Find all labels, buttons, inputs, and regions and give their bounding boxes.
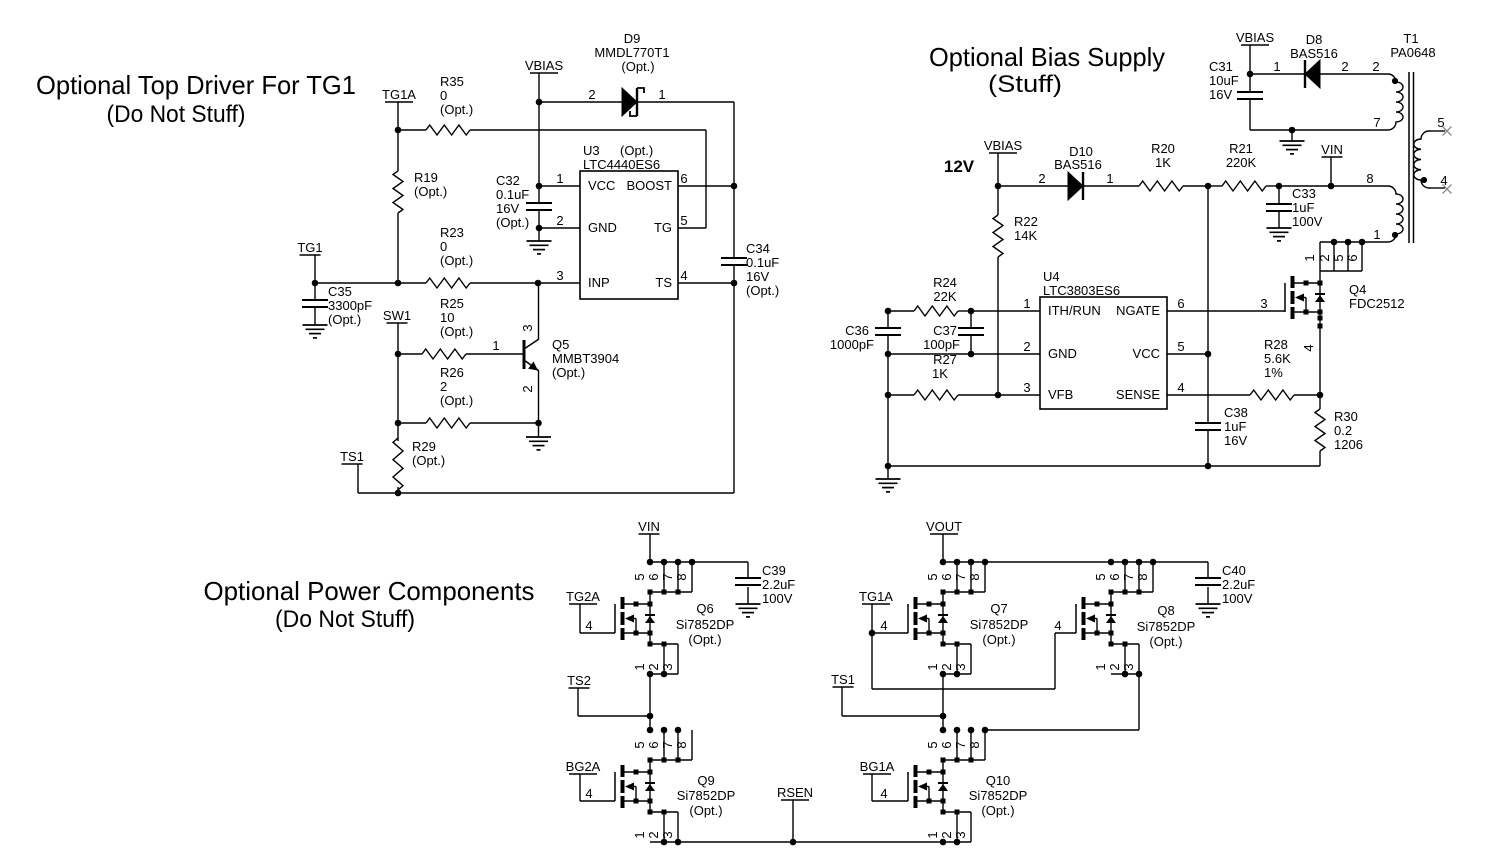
svg-text:0: 0 — [440, 239, 447, 254]
svg-text:5: 5 — [632, 741, 647, 748]
svg-text:(Opt.): (Opt.) — [1149, 634, 1182, 649]
svg-text:(Opt.): (Opt.) — [414, 184, 447, 199]
wire TG pin stub — [678, 227, 706, 229]
wire C31 bottom — [1249, 99, 1251, 130]
svg-text:3: 3 — [1121, 663, 1136, 670]
wire BOOST to C34 — [733, 186, 735, 258]
wire D9 to right corner — [637, 101, 734, 103]
wire INP pin stub — [538, 282, 580, 284]
wire R23 right — [470, 282, 538, 284]
svg-text:2: 2 — [588, 87, 595, 102]
svg-text:(Opt.): (Opt.) — [620, 143, 653, 158]
svg-text:C40: C40 — [1222, 563, 1246, 578]
svg-text:8: 8 — [1366, 171, 1373, 186]
svg-text:(Opt.): (Opt.) — [496, 215, 529, 230]
svg-text:2: 2 — [939, 663, 954, 670]
resistor R19 — [393, 170, 447, 213]
node VOUT bus junctions — [940, 559, 989, 566]
node VIN junction — [1328, 183, 1335, 190]
svg-text:R29: R29 — [412, 439, 436, 454]
svg-text:8: 8 — [967, 573, 982, 580]
svg-text:6: 6 — [1107, 573, 1122, 580]
transistor Q4 FDC2512 — [1285, 276, 1405, 319]
svg-text:(Opt.): (Opt.) — [412, 453, 445, 468]
node BOOST junction — [731, 183, 738, 190]
wire R30 bottom — [1319, 451, 1321, 466]
svg-text:6: 6 — [1177, 296, 1184, 311]
wire VBIAS stub — [538, 73, 540, 102]
wire R30 top — [1319, 395, 1321, 409]
svg-text:1: 1 — [1373, 227, 1380, 242]
svg-text:(Opt.): (Opt.) — [746, 283, 779, 298]
port BG1A — [860, 759, 895, 774]
svg-text:TG1: TG1 — [297, 240, 322, 255]
wire R29 to bottom row — [397, 487, 399, 493]
port VBIAS top — [1236, 30, 1275, 45]
transistor Q8 Si7852DP — [1076, 597, 1195, 649]
wire Q9 drain — [649, 760, 651, 772]
wire C33 top — [1278, 186, 1280, 204]
svg-text:16V: 16V — [496, 201, 519, 216]
node TG1A junction — [395, 127, 402, 134]
svg-text:1000pF: 1000pF — [830, 337, 874, 352]
svg-text:16V: 16V — [1209, 87, 1232, 102]
wire Q5 emitter — [538, 371, 540, 423]
port TG1 — [297, 240, 322, 255]
svg-text:3: 3 — [520, 324, 535, 331]
wire TG2A stub — [580, 604, 615, 633]
svg-text:TG2A: TG2A — [566, 589, 600, 604]
resistor R21 — [1222, 141, 1266, 191]
svg-text:SENSE: SENSE — [1116, 387, 1160, 402]
capacitor C34 — [721, 241, 779, 298]
svg-text:(Opt.): (Opt.) — [689, 803, 722, 818]
svg-text:VIN: VIN — [1321, 142, 1343, 157]
T1 polarity dot pin1 — [1392, 232, 1398, 238]
svg-text:R20: R20 — [1151, 141, 1175, 156]
node C36 bottom junction — [885, 351, 892, 358]
svg-text:(Opt.): (Opt.) — [621, 59, 654, 74]
svg-text:TS1: TS1 — [831, 672, 855, 687]
svg-text:7: 7 — [660, 741, 675, 748]
svg-text:Optional Bias Supply: Optional Bias Supply — [929, 42, 1165, 72]
wire TS1 stub — [357, 464, 359, 493]
Q7 drain pin group 5678 — [925, 562, 985, 595]
wire TG vertical — [705, 130, 707, 228]
svg-text:2: 2 — [1317, 254, 1332, 261]
wire VCC pin stub — [539, 185, 580, 187]
svg-text:(Do Not Stuff): (Do Not Stuff) — [275, 606, 415, 633]
wire C37 bottom — [970, 335, 972, 354]
diode D10 BAS516 — [1038, 144, 1113, 200]
wire C36 top — [887, 311, 889, 328]
diode D8 BAS516 — [1273, 32, 1348, 88]
wire VOUT stub — [942, 534, 944, 562]
node VBIAS-C31 junction — [1247, 71, 1254, 78]
resistor R30 — [1315, 409, 1363, 452]
port VBIAS — [525, 58, 564, 73]
Q9 source pin group 123 — [632, 810, 678, 843]
svg-text:2: 2 — [1341, 59, 1348, 74]
svg-text:ITH/RUN: ITH/RUN — [1048, 303, 1101, 318]
wire VBIAS to D8 — [1250, 73, 1305, 75]
wire C38 bottom — [1207, 430, 1209, 466]
wire Q9 source — [649, 801, 651, 812]
transistor Q7 Si7852DP — [908, 597, 1028, 647]
node Q8 source junctions — [1122, 671, 1143, 678]
node R19-INP junction — [395, 280, 402, 287]
wire SW1 stub — [397, 323, 399, 354]
svg-text:C31: C31 — [1209, 59, 1233, 74]
capacitor C40 — [1195, 563, 1255, 606]
svg-text:5: 5 — [925, 573, 940, 580]
svg-text:7: 7 — [1121, 573, 1136, 580]
port TG1A bottom — [859, 589, 893, 604]
port TG1A — [382, 87, 416, 102]
svg-text:BAS516: BAS516 — [1290, 46, 1338, 61]
node R29 bottom junction — [395, 490, 402, 497]
svg-text:1: 1 — [632, 831, 647, 838]
svg-text:NGATE: NGATE — [1116, 303, 1160, 318]
wire D10 to R20 — [1083, 185, 1139, 187]
svg-text:1: 1 — [556, 171, 563, 186]
svg-text:D8: D8 — [1306, 32, 1323, 47]
resistor R24 — [914, 275, 958, 316]
ground under C35 — [303, 307, 328, 338]
svg-text:7: 7 — [660, 573, 675, 580]
port TG2A — [566, 589, 600, 604]
ground under C33 — [1267, 211, 1292, 241]
svg-text:100V: 100V — [1222, 591, 1253, 606]
svg-text:1K: 1K — [932, 366, 948, 381]
svg-text:5: 5 — [1177, 339, 1184, 354]
ground under U4 section — [876, 466, 901, 492]
T1 pin4 lead — [1431, 173, 1452, 194]
transformer T1 labels — [1390, 31, 1435, 60]
wire 12V to D10 — [998, 185, 1068, 187]
svg-text:1uF: 1uF — [1292, 200, 1314, 215]
wire GND pin stub — [539, 227, 580, 229]
svg-text:6: 6 — [939, 741, 954, 748]
node Q10 bus junctions — [940, 727, 989, 734]
svg-text:Q5: Q5 — [552, 337, 569, 352]
wire Q8 source to Q10 bus — [1138, 674, 1140, 730]
svg-text:3: 3 — [660, 663, 675, 670]
resistor R23 — [426, 225, 473, 288]
svg-text:U4: U4 — [1043, 269, 1060, 284]
Q8 source pin group 123 — [1093, 642, 1139, 675]
wire VBIAS stub — [997, 153, 999, 186]
svg-text:VFB: VFB — [1048, 387, 1073, 402]
svg-text:1: 1 — [1023, 296, 1030, 311]
svg-text:1uF: 1uF — [1224, 419, 1246, 434]
op-amp U3 LTC4440ES6 box — [580, 143, 678, 299]
resistor R22 — [993, 214, 1038, 257]
wire R27 left — [888, 394, 914, 396]
svg-text:7: 7 — [1373, 115, 1380, 130]
node SW1-R25 junction — [395, 351, 402, 358]
wire mid vertical — [1207, 186, 1209, 354]
wire R27 right — [958, 394, 1040, 396]
wire D8 to T1 pin2 — [1320, 59, 1388, 74]
svg-text:(Opt.): (Opt.) — [981, 803, 1014, 818]
wire Q10 drain — [942, 760, 944, 772]
svg-text:2.2uF: 2.2uF — [1222, 577, 1255, 592]
wire TG1 to R19 node — [315, 282, 398, 284]
svg-text:2: 2 — [520, 385, 535, 392]
resistor R20 — [1139, 141, 1183, 191]
node C37 bottom junction — [968, 351, 975, 358]
wire BOOST pin stub — [678, 185, 734, 187]
node TS1 junction — [940, 713, 947, 720]
svg-text:2: 2 — [1107, 663, 1122, 670]
svg-text:BG2A: BG2A — [566, 759, 601, 774]
svg-text:2.2uF: 2.2uF — [762, 577, 795, 592]
svg-text:8: 8 — [967, 741, 982, 748]
wire NGATE to Q4 gate — [1167, 296, 1285, 311]
svg-text:12V: 12V — [944, 157, 975, 176]
svg-text:2: 2 — [646, 663, 661, 670]
wire TG1A stub — [397, 102, 399, 130]
svg-text:MMDL770T1: MMDL770T1 — [594, 45, 669, 60]
wire C37 top — [970, 311, 972, 328]
svg-text:C34: C34 — [746, 241, 770, 256]
svg-text:C33: C33 — [1292, 186, 1316, 201]
svg-text:VCC: VCC — [588, 178, 615, 193]
title: Optional Bias Supply — [929, 42, 1165, 98]
svg-text:VBIAS: VBIAS — [525, 58, 564, 73]
wire R35 right to TG corner — [470, 129, 706, 131]
svg-text:Optional Power Components: Optional Power Components — [204, 576, 535, 606]
wire TG1A to Q8 gate — [872, 618, 1076, 689]
port VIN — [1321, 142, 1343, 157]
wire R25 to base — [466, 338, 524, 354]
svg-text:R25: R25 — [440, 296, 464, 311]
svg-text:(Opt.): (Opt.) — [982, 632, 1015, 647]
svg-text:R28: R28 — [1264, 337, 1288, 352]
svg-text:14K: 14K — [1014, 228, 1037, 243]
resistor R27 — [914, 352, 958, 400]
svg-text:10: 10 — [440, 310, 454, 325]
wire Q6 drain — [649, 592, 651, 604]
Q6 drain pin group 5678 — [632, 562, 692, 595]
node R26 junction — [395, 420, 402, 427]
svg-text:5: 5 — [1331, 254, 1346, 261]
svg-text:8: 8 — [1135, 573, 1150, 580]
wire R20 to node — [1183, 185, 1208, 187]
U3 pin numbers — [556, 171, 687, 283]
T1 polarity dot pin4 — [1421, 177, 1427, 183]
wire VIN bus — [650, 561, 748, 563]
node VIN bus junctions — [647, 559, 696, 566]
wire C39 top — [747, 562, 749, 578]
ground under C31 row — [1280, 130, 1305, 154]
svg-text:1: 1 — [492, 338, 499, 353]
port VBIAS mid — [984, 138, 1023, 153]
wire VIN stub — [649, 534, 651, 562]
port BG2A — [566, 759, 601, 774]
Q9 drain pin group 5678 — [632, 730, 692, 763]
node R22-VFB junction — [995, 392, 1002, 399]
svg-text:Q10: Q10 — [986, 773, 1011, 788]
svg-text:(Opt.): (Opt.) — [440, 253, 473, 268]
capacitor C35 — [302, 284, 372, 327]
wire R35 left — [398, 129, 426, 131]
wire TS2 stub — [578, 688, 650, 716]
svg-text:TS: TS — [655, 275, 672, 290]
svg-text:(Opt.): (Opt.) — [688, 632, 721, 647]
wire C32 to GND node — [538, 210, 540, 228]
svg-text:5: 5 — [925, 741, 940, 748]
node gnd row left junction — [885, 463, 892, 470]
Q10 drain pin group 5678 — [925, 730, 985, 763]
svg-text:FDC2512: FDC2512 — [1349, 296, 1405, 311]
svg-text:C39: C39 — [762, 563, 786, 578]
node C38 bottom junction — [1205, 463, 1212, 470]
wire VIN stub — [1330, 157, 1332, 186]
node TG1A junction — [869, 630, 876, 637]
svg-text:4: 4 — [880, 618, 887, 633]
wire 12V to R22 — [997, 186, 999, 215]
port VOUT bottom — [926, 519, 962, 534]
title: Optional Top Driver For TG1 — [36, 70, 356, 128]
resistor R25 — [422, 296, 473, 359]
svg-text:Si7852DP: Si7852DP — [676, 617, 735, 632]
transistor Q6 Si7852DP — [615, 597, 734, 647]
capacitor C39 — [735, 563, 795, 606]
svg-text:1: 1 — [1093, 663, 1108, 670]
node RSEN row junctions — [661, 839, 961, 846]
svg-text:R19: R19 — [414, 170, 438, 185]
node Q9 bus junctions — [647, 727, 682, 734]
transformer T1 core — [1409, 72, 1414, 243]
node Q6 source junctions — [647, 671, 668, 678]
net label 12V — [944, 157, 975, 176]
transistor Q5 MMBT3904 — [520, 324, 619, 392]
capacitor C31 — [1209, 59, 1263, 102]
wire Q5 collector — [538, 283, 540, 339]
svg-text:GND: GND — [1048, 346, 1077, 361]
svg-text:4: 4 — [1177, 380, 1184, 395]
svg-text:BAS516: BAS516 — [1054, 157, 1102, 172]
svg-text:3: 3 — [953, 663, 968, 670]
node R28-R30 junction — [1317, 392, 1324, 399]
svg-text:R35: R35 — [440, 74, 464, 89]
node VCC junction — [536, 183, 543, 190]
capacitor C36 — [830, 323, 901, 352]
wire gnd bottom row — [888, 465, 1320, 467]
svg-text:R22: R22 — [1014, 214, 1038, 229]
capacitor C38 — [1195, 405, 1248, 448]
svg-text:4: 4 — [585, 786, 592, 801]
wire SENSE to R28 — [1167, 394, 1250, 396]
port SW1 — [383, 308, 411, 323]
svg-text:TG1A: TG1A — [382, 87, 416, 102]
wire TS1 stub — [842, 687, 943, 716]
wire TG1 to C35 — [314, 283, 316, 300]
svg-text:5: 5 — [1093, 573, 1108, 580]
wire VOUT bus — [943, 561, 1208, 563]
wire SW1 to R26 — [397, 354, 399, 423]
svg-text:TG1A: TG1A — [859, 589, 893, 604]
wire R22 to VFB — [997, 257, 999, 395]
svg-text:2: 2 — [1038, 171, 1045, 186]
svg-text:0: 0 — [440, 88, 447, 103]
svg-text:BOOST: BOOST — [626, 178, 672, 193]
wire right vertical D9 to BOOST — [733, 102, 735, 186]
wire Q8 source — [1110, 633, 1112, 644]
transistor Q10 Si7852DP — [908, 765, 1027, 818]
svg-text:0.2: 0.2 — [1334, 423, 1352, 438]
resistor R29 — [393, 438, 445, 490]
svg-text:C36: C36 — [845, 323, 869, 338]
wire ITH pin — [971, 310, 1040, 312]
svg-text:RSEN: RSEN — [777, 785, 813, 800]
svg-text:3: 3 — [1260, 296, 1267, 311]
wire VCC to C32 — [538, 186, 540, 203]
wire R19 to TG1 row — [397, 213, 399, 283]
wire Q4 drain — [1319, 242, 1321, 283]
wire TG1 stub — [314, 255, 316, 283]
wire Q7 source — [942, 633, 944, 644]
ground under C39 — [736, 587, 761, 617]
svg-text:16V: 16V — [1224, 433, 1247, 448]
svg-text:3: 3 — [660, 831, 675, 838]
port TS2 — [567, 673, 591, 688]
transformer T1 primary top winding — [1388, 74, 1403, 130]
capacitor C32 — [496, 173, 552, 230]
svg-text:8: 8 — [674, 741, 689, 748]
U4 pin numbers — [1023, 296, 1184, 395]
svg-text:C35: C35 — [328, 284, 352, 299]
node Q8 bus junctions — [1108, 559, 1157, 566]
wire TS pin stub — [678, 282, 734, 284]
svg-text:10uF: 10uF — [1209, 73, 1239, 88]
svg-text:TG: TG — [654, 220, 672, 235]
wire right vertical TS — [733, 283, 735, 493]
svg-text:D9: D9 — [624, 31, 641, 46]
svg-text:Si7852DP: Si7852DP — [677, 788, 736, 803]
capacitor C33 — [1266, 186, 1323, 229]
svg-text:MMBT3904: MMBT3904 — [552, 351, 619, 366]
transistor Q9 Si7852DP — [615, 765, 735, 818]
svg-text:Q7: Q7 — [990, 601, 1007, 616]
wire GND row — [888, 353, 1040, 355]
wire Q10 bus to Q8 — [985, 729, 1139, 731]
svg-text:3: 3 — [953, 831, 968, 838]
wire Q7 to TS1 node — [942, 674, 944, 730]
ground under C32 — [527, 228, 552, 254]
resistor R26 — [426, 365, 473, 428]
wire C36 bottom — [887, 335, 889, 354]
resistor R35 — [426, 74, 473, 135]
wire Q8 drain — [1110, 592, 1112, 604]
wire Q7 drain — [942, 592, 944, 604]
wire TG1A to R19 — [397, 130, 399, 171]
svg-text:1: 1 — [1273, 59, 1280, 74]
svg-text:R21: R21 — [1229, 141, 1253, 156]
svg-text:1%: 1% — [1264, 365, 1283, 380]
wire R25 left — [398, 353, 422, 355]
svg-text:3: 3 — [556, 268, 563, 283]
transformer T1 primary bottom winding — [1366, 171, 1403, 242]
svg-text:0.1uF: 0.1uF — [496, 187, 529, 202]
svg-text:1K: 1K — [1155, 155, 1171, 170]
node R27 left junction — [885, 392, 892, 399]
svg-text:6: 6 — [680, 171, 687, 186]
svg-text:2: 2 — [440, 379, 447, 394]
svg-text:VBIAS: VBIAS — [984, 138, 1023, 153]
